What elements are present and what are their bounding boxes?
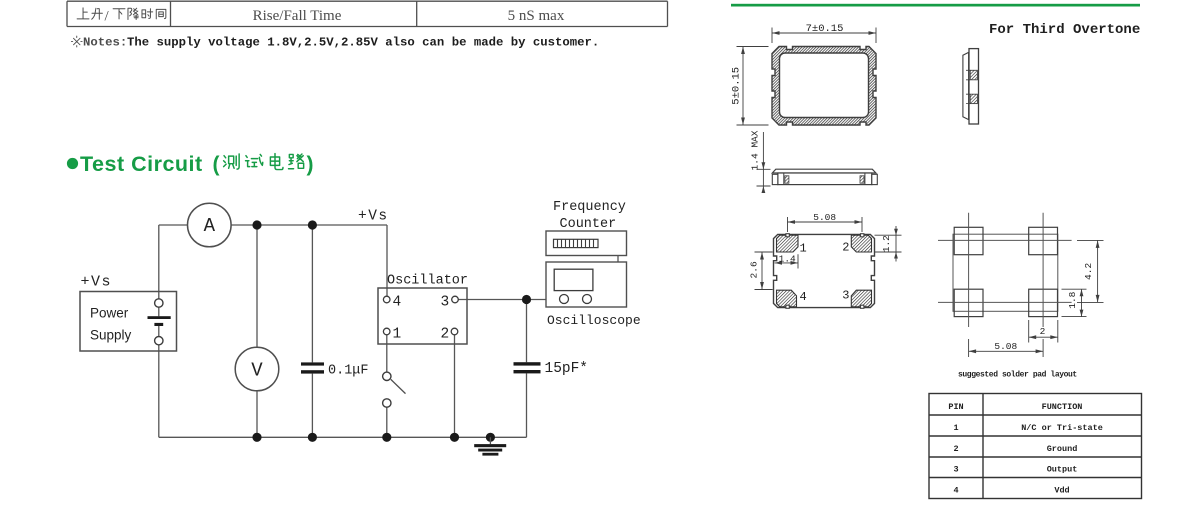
svg-text:1.4 MAX: 1.4 MAX xyxy=(750,130,761,170)
node dot pin3 junction xyxy=(522,295,531,304)
wire pin2 branch xyxy=(454,335,456,438)
svg-text:FUNCTION: FUNCTION xyxy=(1042,402,1083,412)
node dots bottom bus xyxy=(252,433,261,442)
svg-text:3: 3 xyxy=(441,295,450,311)
svg-text:4.2: 4.2 xyxy=(1083,263,1094,280)
svg-text:5 nS max: 5 nS max xyxy=(508,8,565,24)
pin 1 xyxy=(383,328,390,335)
bullet xyxy=(67,158,78,169)
dim 2.6 (bottom view) xyxy=(755,252,773,290)
capacitor C2 15pF xyxy=(514,362,541,365)
notes line xyxy=(71,36,82,47)
side view (right) lid xyxy=(963,52,969,119)
bottom view outline xyxy=(774,234,875,307)
wire bottom bus xyxy=(159,436,527,438)
solder pad layout outline xyxy=(953,234,1058,311)
svg-text:+Vs: +Vs xyxy=(81,274,113,291)
wire voltmeter branch xyxy=(256,225,258,437)
pin function table grid xyxy=(929,394,1142,499)
svg-text:The supply voltage 1.8V,2.5V,2: The supply voltage 1.8V,2.5V,2.85V also … xyxy=(127,36,599,50)
layout pad BR xyxy=(1029,289,1058,316)
pad 1 (bottom view) xyxy=(777,235,799,252)
green divider rule xyxy=(731,4,1140,7)
svg-text:1.2: 1.2 xyxy=(881,235,892,252)
node dot top C1 xyxy=(308,220,317,229)
pin 4 xyxy=(383,296,390,303)
svg-text:7±0.15: 7±0.15 xyxy=(806,23,844,35)
svg-text:Test Circuit: Test Circuit xyxy=(80,152,203,176)
svg-text:Supply: Supply xyxy=(90,328,132,343)
side view (right) body xyxy=(969,49,979,124)
dim 1.4 MAX xyxy=(757,132,771,193)
dim 5.08 (layout) xyxy=(969,339,1044,357)
svg-text:Oscillator: Oscillator xyxy=(387,274,468,289)
svg-text:15pF*: 15pF* xyxy=(545,361,589,377)
oscillator U1 box xyxy=(378,288,467,344)
oscilloscope box xyxy=(546,262,627,307)
dim 4.2 (layout) xyxy=(1077,240,1104,302)
svg-text:3: 3 xyxy=(842,288,849,302)
side view (right) pads xyxy=(970,70,977,80)
ammeter A1 xyxy=(188,203,232,247)
svg-text:Oscilloscope: Oscilloscope xyxy=(547,313,641,328)
dim 1.2 (bottom view) xyxy=(875,226,902,262)
svg-text:Power: Power xyxy=(90,306,129,321)
svg-text:+Vs: +Vs xyxy=(358,209,389,225)
svg-text:4: 4 xyxy=(393,295,402,311)
svg-text:1: 1 xyxy=(953,423,958,433)
svg-text:1.4: 1.4 xyxy=(779,253,796,264)
pad 4 (bottom view) xyxy=(777,290,797,307)
svg-text:1: 1 xyxy=(393,327,402,343)
layout centerlines xyxy=(938,213,1072,327)
svg-text:N/C or Tri-state: N/C or Tri-state xyxy=(1021,423,1103,433)
dim 5±0.15 xyxy=(737,47,769,126)
side view body xyxy=(778,173,872,185)
svg-text:Notes:: Notes: xyxy=(83,36,127,50)
svg-text:PIN: PIN xyxy=(948,402,963,412)
svg-text:suggested solder pad layout: suggested solder pad layout xyxy=(958,371,1077,380)
castellation notches (bottom view) xyxy=(786,234,864,309)
switch S1 xyxy=(383,372,391,380)
wire top bus xyxy=(159,225,387,296)
capacitor C1 0.1uF xyxy=(301,362,324,365)
svg-text:(: ( xyxy=(213,153,220,176)
svg-text:A: A xyxy=(204,215,216,237)
table grid lines xyxy=(67,1,668,26)
dim 2 (layout) xyxy=(1029,320,1058,343)
wire left vertical xyxy=(158,225,160,437)
svg-text:2: 2 xyxy=(842,241,849,255)
wire switch branch xyxy=(386,335,388,437)
dim 1.4 (bottom view) xyxy=(775,254,799,268)
svg-text:3: 3 xyxy=(953,465,958,475)
svg-text:): ) xyxy=(307,153,314,176)
svg-text:Output: Output xyxy=(1047,465,1078,475)
cell text 上升/下降时间 xyxy=(77,8,102,19)
wire cap C1 branch xyxy=(311,225,313,437)
svg-text:2: 2 xyxy=(1040,326,1046,337)
pad 3 (bottom view) xyxy=(851,290,871,307)
svg-text:1: 1 xyxy=(800,242,807,256)
ground xyxy=(486,433,495,442)
layout pad TL xyxy=(954,227,983,254)
dim 5.08 (bottom view) xyxy=(788,217,863,232)
dim 1.8 (layout) xyxy=(1062,289,1087,316)
svg-text:5.08: 5.08 xyxy=(994,341,1017,352)
svg-text:5.08: 5.08 xyxy=(813,212,836,223)
svg-text:Frequency: Frequency xyxy=(553,200,626,215)
svg-text:Rise/Fall Time: Rise/Fall Time xyxy=(253,8,342,24)
svg-text:For Third Overtone: For Third Overtone xyxy=(989,22,1140,38)
svg-text:Ground: Ground xyxy=(1047,444,1078,454)
svg-text:/: / xyxy=(105,9,110,25)
svg-text:5±0.15: 5±0.15 xyxy=(731,67,743,105)
svg-text:2: 2 xyxy=(441,327,450,343)
node dot top V xyxy=(252,220,261,229)
svg-text:0.1μF: 0.1μF xyxy=(328,364,369,379)
svg-text:2: 2 xyxy=(953,444,958,454)
side view (front) lid xyxy=(772,169,876,173)
frequency counter box xyxy=(546,231,627,256)
pad 2 (bottom view) xyxy=(851,235,871,252)
top view package outline xyxy=(772,47,876,126)
svg-text:1.8: 1.8 xyxy=(1067,291,1078,308)
svg-text:4: 4 xyxy=(800,290,807,304)
svg-text:V: V xyxy=(251,360,263,382)
layout pad TR xyxy=(1029,227,1058,254)
power supply PS1 box xyxy=(80,292,177,352)
battery B1 xyxy=(155,299,163,307)
svg-text:Counter: Counter xyxy=(560,217,617,232)
svg-text:4: 4 xyxy=(953,485,958,495)
wire counter to scope xyxy=(617,256,619,263)
voltmeter V1 xyxy=(235,347,279,391)
layout pad BL xyxy=(954,289,983,316)
svg-text:Vdd: Vdd xyxy=(1054,485,1069,495)
wire pin3 to scope xyxy=(458,300,546,438)
dim 7±0.15 xyxy=(772,28,876,44)
svg-text:2.6: 2.6 xyxy=(749,261,760,278)
